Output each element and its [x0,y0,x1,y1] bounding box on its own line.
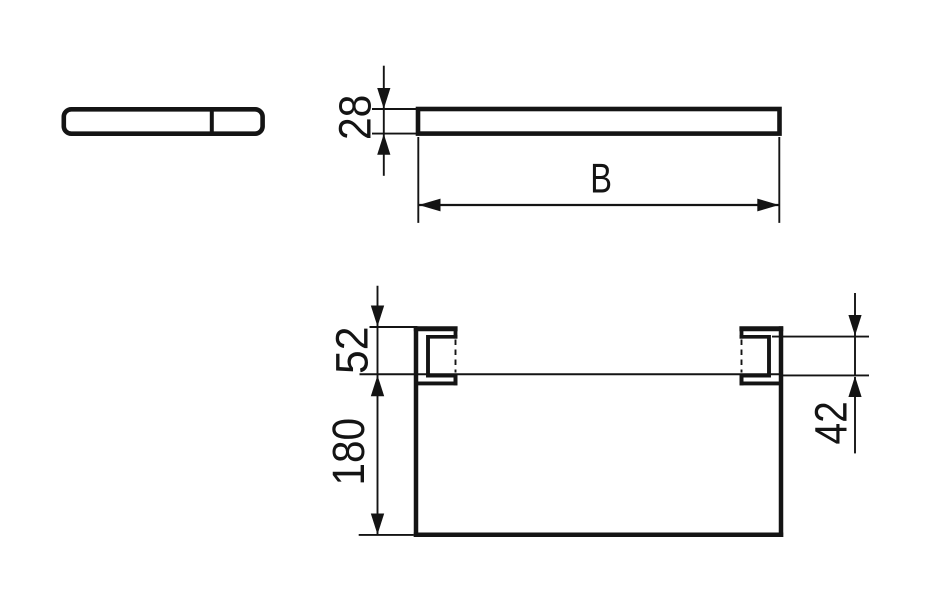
svg-text:52: 52 [327,327,377,374]
right bracket: inner right vertical [767,335,771,378]
left bracket: inner top bar [428,335,457,339]
dim 42: dimension line lower part [854,377,856,453]
dim 42: dimension line upper part [854,293,856,336]
dim 42: lower arrowhead (up) [848,376,861,397]
dim 42: top extension line [772,336,869,338]
right bracket: left connector vertical [740,374,744,385]
side view: divider line [210,107,214,135]
dim 42: dimension line between [854,337,856,375]
dim 52: top arrowhead (down) [371,306,384,327]
dim 180: bottom arrowhead (down) [371,514,384,535]
svg-text:180: 180 [324,418,374,486]
dim B: left extension line [417,137,419,223]
dim 28: upper arrowhead (down) [377,88,390,109]
dim 28: dimension line upper part [383,66,385,109]
dim 52/180: shared dimension line [377,286,379,535]
left bracket: right connector vertical [454,374,458,385]
left bracket: outer top bar [414,326,458,331]
dim 28: dimension line between [383,109,385,134]
plan view: bar outline [418,109,780,134]
dim 42: upper arrowhead (down) [848,315,861,336]
svg-text:28: 28 [331,95,381,140]
dim 28: top extension line [372,108,418,110]
right bracket: inner top bar [740,335,769,339]
front view: body left edge [414,326,419,537]
dim 28: lower arrowhead (up) [377,134,390,155]
left bracket: outer bottom bar [416,381,458,385]
dim B: right arrowhead [757,199,779,212]
dim B: left arrowhead [419,199,441,212]
dim B: right extension line [778,137,780,223]
front view: body right edge [779,326,784,537]
right bracket: outer bottom bar [740,381,782,385]
svg-text:B: B [590,154,612,201]
front view: body top edge thin line with extensions [360,373,784,375]
dim 180: bottom extension line [359,534,414,536]
left bracket: inner bottom bar [426,374,455,377]
right bracket: dashed hidden edge [741,340,743,373]
dim B: dimension line [419,204,779,206]
dim 52: top extension line [370,326,418,328]
side view: rounded bar outline [64,109,263,133]
left bracket: outer right cap [454,329,458,339]
right bracket: inner bottom bar [742,374,771,377]
left bracket: inner left vertical [426,335,430,378]
svg-text:42: 42 [806,401,856,444]
dim 28: dimension line lower part [383,134,385,176]
dim 42: bottom extension line [781,374,869,376]
left bracket: dashed hidden edge [455,340,457,373]
front view: body bottom edge [414,532,783,537]
dim 28: bottom extension line [372,133,418,135]
right bracket: outer top bar [739,326,783,331]
right bracket: outer left cap [740,329,744,339]
dim 52/180: middle arrowhead (up) [371,375,384,396]
